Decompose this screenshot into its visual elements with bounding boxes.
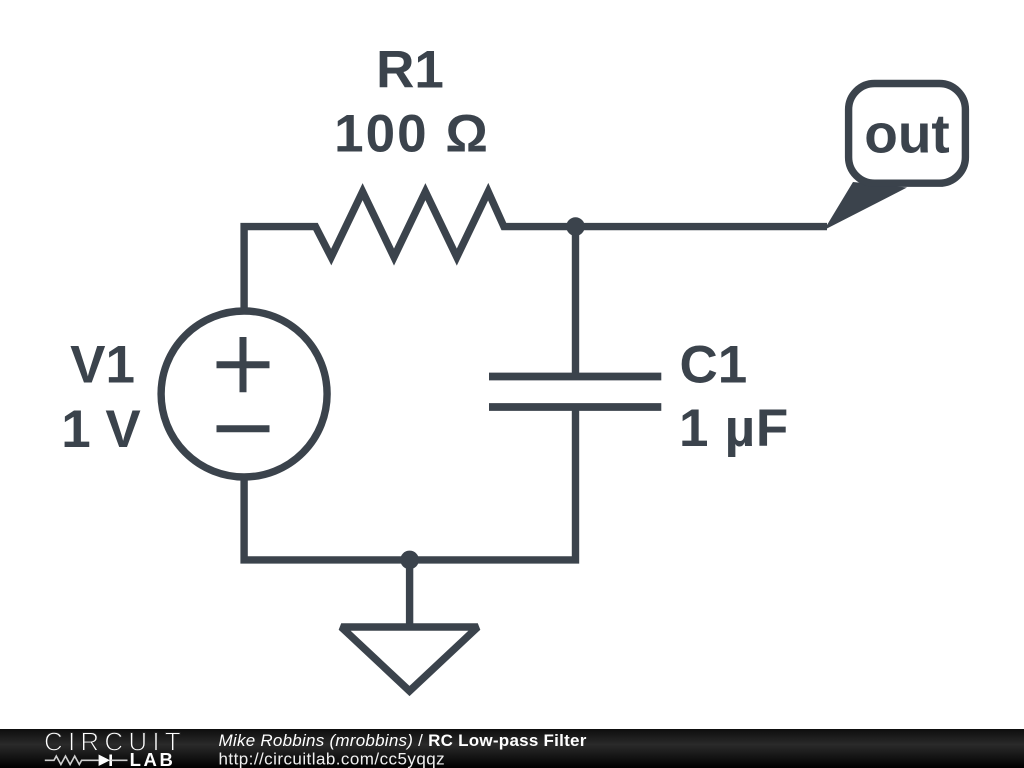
svg-text:1 µF: 1 µF (679, 399, 789, 458)
wire bottom: V1 bottom lead, ground run, capacitor bottom lead (244, 406, 575, 560)
out flag tail (824, 182, 907, 230)
svg-text:100 Ω: 100 Ω (334, 105, 490, 164)
svg-text:1 V: 1 V (61, 400, 141, 459)
svg-text:R1: R1 (376, 41, 444, 100)
node junction dot (resistor/capacitor/out) (566, 217, 585, 236)
wire capacitor top stem (572, 227, 579, 375)
wire top: V1 top lead, resistor leads, node to out (244, 192, 827, 313)
svg-text:V1: V1 (70, 336, 135, 395)
svg-text:C1: C1 (680, 336, 748, 395)
CircuitLab logo diode (99, 755, 110, 767)
footer bar (0, 729, 1024, 768)
svg-text:LAB: LAB (130, 749, 176, 768)
CircuitLab logo resistor-diode glyph wire (45, 756, 99, 764)
voltage source V1 circle (161, 311, 327, 477)
ground stem (406, 560, 413, 624)
svg-text:out: out (864, 103, 950, 165)
svg-text:Mike Robbins (mrobbins) / RC L: Mike Robbins (mrobbins) / RC Low-pass Fi… (219, 731, 587, 750)
out flag box (849, 84, 966, 184)
ground junction dot (400, 551, 419, 570)
ground triangle (341, 627, 478, 691)
V1 plus symbol (217, 337, 270, 392)
capacitor C1 top plate (489, 373, 661, 381)
svg-text:http://circuitlab.com/cc5yqqz: http://circuitlab.com/cc5yqqz (219, 750, 446, 768)
V1 minus symbol (217, 425, 270, 432)
capacitor C1 bottom plate (489, 403, 661, 411)
